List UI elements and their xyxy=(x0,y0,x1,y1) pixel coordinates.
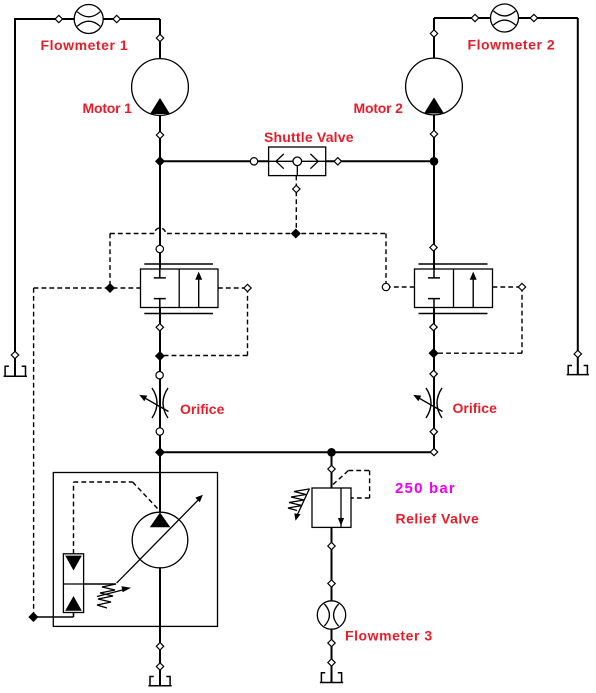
pilot line horizontal with hop over left main line xyxy=(110,228,386,233)
port valve V2 left pilot xyxy=(382,283,389,290)
port shuttle bottom xyxy=(293,185,300,192)
port left tank xyxy=(11,351,18,358)
flowmeter FM2 rotor arcs xyxy=(493,11,515,25)
wire bottom horizontal manifold xyxy=(160,451,434,453)
svg-text:Motor 2: Motor 2 xyxy=(354,100,404,116)
wire relief branch down to tank xyxy=(331,452,333,682)
orifice O1 throttle arcs xyxy=(152,388,168,418)
relief valve RV spring xyxy=(288,489,309,511)
port motor M1 bottom xyxy=(156,131,163,138)
wire top-right run over flowmeter2 xyxy=(434,17,578,19)
port valve V1 bottom xyxy=(156,324,163,331)
flowmeter FM3 body xyxy=(317,601,345,629)
port FM2 left xyxy=(471,14,478,21)
valve V2 blocked port tees xyxy=(428,269,440,308)
pilot line load-sense drop left edge xyxy=(33,288,35,617)
svg-text:Motor 1: Motor 1 xyxy=(83,100,133,116)
shuttle valve SV body xyxy=(269,147,326,176)
orifice O2 adjust arrow xyxy=(419,398,443,412)
wire right main line valve2 down to corner xyxy=(433,161,435,452)
tank T3 pump drain xyxy=(148,677,171,686)
flowmeter FM3 rotor arcs xyxy=(324,604,338,626)
port valve V2 pilot corner xyxy=(518,283,525,290)
valve V1 flow arrow xyxy=(198,279,200,308)
stack to load-sense link wire xyxy=(33,613,73,618)
compensator upper triangle xyxy=(65,556,82,571)
compensator spring arrow xyxy=(97,590,125,597)
port orifice O2 top xyxy=(430,370,437,377)
tank T2 right edge xyxy=(567,366,589,375)
pilot line valve2 right feedback loop xyxy=(434,287,522,353)
shuttle valve SV internal left arrow xyxy=(269,154,293,169)
port motor M2 bottom xyxy=(430,130,437,137)
compensator piston block xyxy=(63,554,83,613)
port shuttle right xyxy=(334,158,341,165)
svg-text:250 bar: 250 bar xyxy=(395,480,456,497)
pump P variable displacement arrow xyxy=(117,499,200,583)
orifice O2 throttle arcs xyxy=(426,388,442,418)
orifice O1 adjust arrow xyxy=(145,398,169,412)
port FM1 left xyxy=(55,15,62,22)
valve V2 top rail xyxy=(419,263,488,265)
wire pump column down to tank xyxy=(159,452,161,685)
wire left main line valve1 to pump junction xyxy=(159,161,161,452)
svg-text:Flowmeter 1: Flowmeter 1 xyxy=(41,37,129,53)
flowmeter FM1 rotor arcs xyxy=(77,12,100,27)
relief valve RV setting arrow xyxy=(298,489,310,515)
valve V2 flow arrow xyxy=(472,279,474,308)
wire motor2 column xyxy=(433,18,435,161)
port valve V1 pilot corner xyxy=(244,284,251,291)
port shuttle left xyxy=(250,158,257,165)
valve V2 bottom rail xyxy=(419,313,488,315)
pump P flow triangle xyxy=(150,513,171,528)
compensator lower triangle xyxy=(65,596,82,611)
motor M1 body xyxy=(132,59,189,116)
port pump drain upper xyxy=(156,643,163,650)
valve V1 bottom rail xyxy=(144,313,213,315)
svg-text:Shuttle Valve: Shuttle Valve xyxy=(264,129,354,145)
port valve V2 top xyxy=(430,244,437,251)
valve V2 position divider xyxy=(453,269,455,308)
relief valve RV internal passage xyxy=(340,488,342,527)
port relief tank xyxy=(328,659,335,666)
compensator link line xyxy=(84,583,116,585)
tank T4 relief drain xyxy=(320,673,343,683)
compensator divider xyxy=(63,583,83,585)
wire top-left run to flowmeter1 and down left edge xyxy=(15,18,160,20)
svg-text:Relief Valve: Relief Valve xyxy=(396,511,480,527)
valve V1 position divider xyxy=(178,269,180,308)
pump unit enclosure xyxy=(53,473,217,627)
pump P body xyxy=(132,512,188,568)
svg-text:Orifice: Orifice xyxy=(453,400,498,416)
junction node left pilot tee xyxy=(106,284,114,292)
pilot line right riser to valve2 xyxy=(386,234,415,288)
junction node motor1/shuttle xyxy=(156,157,164,165)
port FM1 right xyxy=(113,15,120,22)
port motor M2 top xyxy=(430,30,437,37)
pilot line relief valve xyxy=(333,471,370,499)
shuttle valve SV outlet stub xyxy=(296,166,298,176)
pilot line shuttle valve drop xyxy=(295,176,297,234)
junction node load-sense corner xyxy=(29,613,37,621)
port orifice O1 top xyxy=(156,372,163,379)
relief valve RV body xyxy=(312,488,351,527)
port FM2 right xyxy=(530,14,537,21)
flowmeter FM1 body xyxy=(74,5,103,34)
pilot line valve1 right feedback loop xyxy=(160,288,248,356)
port relief top xyxy=(328,465,335,472)
valve V2 envelope xyxy=(415,269,493,308)
junction node left feedback xyxy=(156,352,164,360)
tank T1 left edge xyxy=(4,366,27,376)
svg-text:Orifice: Orifice xyxy=(180,401,225,417)
junction node motor2/shuttle xyxy=(430,158,437,165)
port motor M1 top xyxy=(156,34,163,41)
port pump tank xyxy=(156,663,163,670)
shuttle valve SV ball xyxy=(293,157,302,166)
wire right tank drop xyxy=(577,18,579,374)
junction node relief tee xyxy=(328,449,335,456)
port relief bottom xyxy=(328,542,335,549)
junction node right feedback xyxy=(429,349,437,357)
pilot line left riser to valve1 port xyxy=(109,234,111,289)
pilot line pump compensator xyxy=(74,482,158,554)
shuttle valve SV internal right arrow xyxy=(302,154,326,169)
port orifice O2 bottom xyxy=(430,428,437,435)
pilot line valve1 left feed xyxy=(34,287,141,289)
port FM3 top xyxy=(328,580,335,587)
wire left tank drop xyxy=(14,18,16,376)
port orifice O1 bottom xyxy=(156,428,163,435)
flowmeter FM2 body xyxy=(491,4,519,32)
port right tank xyxy=(574,350,581,357)
port FM3 bottom xyxy=(328,639,335,646)
port right corner xyxy=(430,448,437,455)
wire motor1 column xyxy=(159,19,161,161)
motor M2 body xyxy=(406,58,463,115)
junction node pump tee xyxy=(156,448,164,456)
valve V1 top rail xyxy=(144,263,213,265)
port valve V1 top xyxy=(156,245,163,252)
relief valve RV internal arrowhead xyxy=(338,518,344,526)
junction node pilot cross xyxy=(292,229,300,237)
svg-text:Flowmeter 2: Flowmeter 2 xyxy=(468,37,556,53)
compensator spring xyxy=(97,584,116,608)
valve V1 envelope xyxy=(141,269,219,308)
motor M1 flow triangle xyxy=(150,98,170,114)
wire motor1 junction to shuttle to motor2 junction xyxy=(160,160,434,162)
svg-text:Flowmeter 3: Flowmeter 3 xyxy=(345,628,433,644)
valve V1 blocked port tees xyxy=(154,269,166,308)
motor M2 flow triangle xyxy=(424,97,444,113)
port valve V2 bottom xyxy=(430,323,437,330)
